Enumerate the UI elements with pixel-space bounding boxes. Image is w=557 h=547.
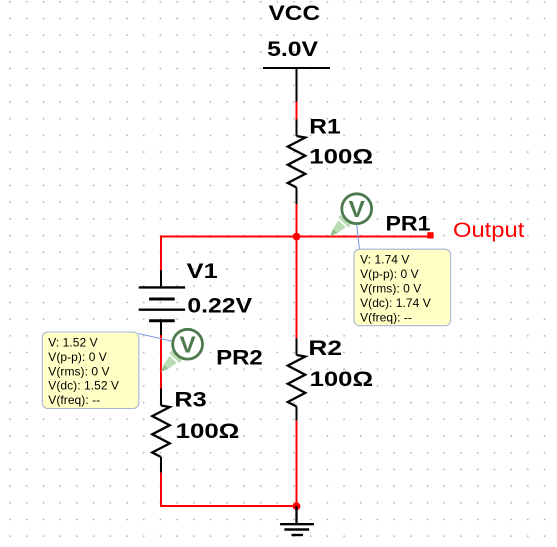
terminal Output (red square) bbox=[427, 232, 433, 238]
wire R2 to ground node B bbox=[296, 421, 298, 506]
resistor R3 bbox=[152, 389, 170, 473]
wire node A to R2 bbox=[296, 237, 298, 339]
wire R3 to ground node B bbox=[161, 473, 297, 506]
wire V1 to R3 bbox=[160, 335, 162, 389]
svg-text:V(rms): 0 V: V(rms): 0 V bbox=[360, 282, 421, 296]
callout line PR1 bbox=[357, 224, 360, 250]
svg-text:V(rms): 0 V: V(rms): 0 V bbox=[48, 364, 109, 378]
svg-text:Output: Output bbox=[453, 218, 524, 242]
svg-text:100Ω: 100Ω bbox=[176, 420, 240, 443]
probe PR1 bbox=[330, 194, 372, 237]
svg-text:VCC: VCC bbox=[269, 2, 321, 25]
callout line PR2 bbox=[139, 334, 173, 342]
svg-text:100Ω: 100Ω bbox=[310, 368, 374, 391]
svg-text:V1: V1 bbox=[187, 260, 218, 283]
svg-text:V: V bbox=[180, 332, 197, 358]
readout box PR2 bbox=[42, 332, 139, 409]
svg-text:V(freq): --: V(freq): -- bbox=[360, 310, 412, 324]
svg-text:V(dc): 1.74 V: V(dc): 1.74 V bbox=[360, 296, 431, 310]
svg-text:V: 1.74 V: V: 1.74 V bbox=[360, 253, 409, 267]
readout box PR1 bbox=[354, 249, 451, 326]
svg-text:PR1: PR1 bbox=[386, 213, 431, 236]
resistor R1 bbox=[288, 120, 306, 205]
svg-text:V: 1.52 V: V: 1.52 V bbox=[48, 335, 97, 349]
wire node A to battery V1 (left branch top) bbox=[161, 237, 297, 271]
probe PR2 bbox=[161, 329, 203, 372]
ground bbox=[280, 506, 314, 535]
svg-text:V(freq): --: V(freq): -- bbox=[48, 393, 100, 407]
svg-text:100Ω: 100Ω bbox=[309, 145, 373, 168]
svg-text:5.0V: 5.0V bbox=[267, 38, 318, 61]
wire VCC to R1 bbox=[296, 102, 298, 120]
power VCC bbox=[263, 2, 330, 102]
wire R1 to node A bbox=[296, 204, 298, 237]
node A junction bbox=[293, 233, 301, 241]
svg-text:0.22V: 0.22V bbox=[187, 295, 252, 318]
svg-text:V: V bbox=[349, 196, 366, 222]
svg-text:V(dc): 1.52 V: V(dc): 1.52 V bbox=[48, 379, 119, 393]
wire node A to Output terminal bbox=[297, 236, 429, 238]
node B junction bbox=[293, 502, 301, 510]
svg-text:R2: R2 bbox=[308, 337, 342, 360]
svg-text:PR2: PR2 bbox=[216, 347, 263, 370]
resistor R2 bbox=[288, 338, 306, 420]
svg-text:R1: R1 bbox=[309, 115, 341, 138]
svg-text:V(p-p): 0 V: V(p-p): 0 V bbox=[48, 350, 107, 364]
svg-text:V(p-p): 0 V: V(p-p): 0 V bbox=[360, 267, 419, 281]
svg-text:R3: R3 bbox=[174, 389, 206, 412]
battery V1 bbox=[139, 270, 185, 336]
